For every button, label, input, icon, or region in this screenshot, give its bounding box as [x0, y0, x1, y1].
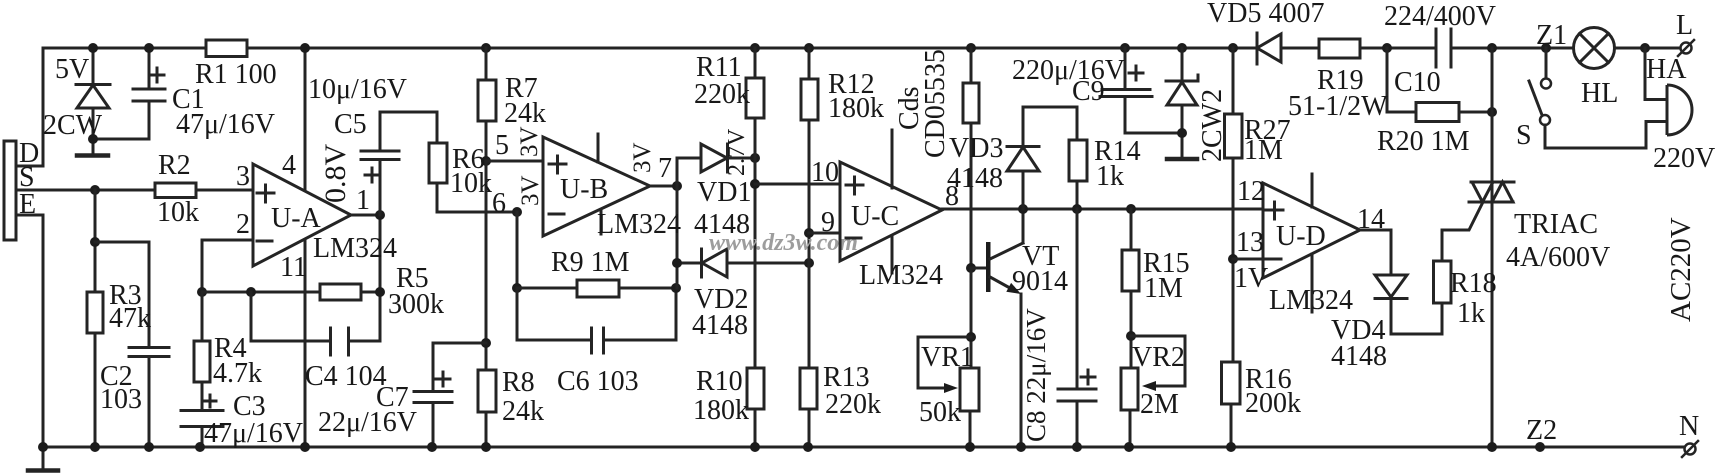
svg-text:13: 13	[1236, 227, 1264, 258]
wire pin E	[16, 215, 43, 447]
resistor R11	[746, 78, 764, 118]
svg-text:103: 103	[100, 384, 142, 415]
capacitor C2	[129, 348, 169, 357]
node bottom rail C3	[195, 442, 205, 452]
svg-text:CD05535: CD05535	[920, 49, 951, 158]
svg-text:AC220V: AC220V	[1665, 217, 1697, 322]
svg-text:LM324: LM324	[597, 209, 681, 240]
svg-text:C9: C9	[1072, 76, 1105, 107]
wire U-A output	[351, 214, 380, 217]
resistor R10	[747, 368, 764, 409]
svg-text:9014: 9014	[1012, 266, 1068, 297]
op-amp U-B	[543, 137, 650, 236]
node R20 right triac	[1487, 107, 1497, 117]
wire C7 branch	[433, 343, 486, 447]
svg-text:4.7k: 4.7k	[213, 358, 262, 389]
svg-text:1V: 1V	[1234, 263, 1268, 294]
node R15 top	[1126, 204, 1136, 214]
svg-text:6: 6	[492, 188, 506, 219]
svg-text:10μ/16V: 10μ/16V	[308, 74, 407, 105]
wire R27 divider	[1231, 48, 1233, 447]
wire zener anode to C1 bottom	[93, 138, 149, 141]
svg-text:R18: R18	[1450, 268, 1497, 299]
wire lamp to L	[1615, 47, 1681, 50]
svg-text:LM324: LM324	[1269, 285, 1353, 316]
wire R12 divider	[808, 48, 811, 447]
node output U-A right	[375, 287, 385, 297]
svg-text:VD1: VD1	[697, 177, 751, 208]
svg-text:300k: 300k	[388, 289, 444, 320]
node bottom rail C7	[427, 442, 437, 452]
capacitor C5	[361, 112, 437, 215]
svg-text:200k: 200k	[1245, 388, 1301, 419]
wire pin S	[16, 189, 155, 192]
wire pin4 U-A	[304, 48, 307, 190]
node VD1 cathode	[750, 153, 760, 163]
svg-text:1M: 1M	[1244, 135, 1283, 166]
svg-text:10: 10	[811, 157, 839, 188]
wire feedback row R5	[202, 291, 380, 294]
wire R7 leads	[485, 48, 488, 161]
svg-text:9: 9	[821, 207, 835, 238]
wire pin D	[16, 165, 43, 168]
wire U-C power stub bottom	[891, 236, 894, 273]
svg-text:2.7V: 2.7V	[724, 128, 750, 176]
svg-text:L: L	[1676, 10, 1693, 41]
svg-text:U-A: U-A	[271, 203, 322, 234]
node triac top	[1487, 43, 1497, 53]
svg-text:224/400V: 224/400V	[1384, 1, 1496, 32]
resistor R8	[478, 370, 496, 412]
svg-text:220k: 220k	[694, 79, 750, 110]
svg-text:220V: 220V	[1653, 143, 1715, 174]
svg-text:8: 8	[945, 181, 959, 212]
node top rail R11	[750, 43, 760, 53]
node bottom rail C2	[144, 442, 154, 452]
wire pin2 U-A	[202, 240, 253, 292]
node R3 top	[90, 237, 100, 247]
svg-text:C8 22μ/16V: C8 22μ/16V	[1021, 308, 1051, 442]
wire U-B power stub bottom	[600, 210, 603, 234]
wire R15 leads	[1130, 209, 1131, 447]
node bottom rail R10	[750, 442, 760, 452]
node top rail Cds	[966, 43, 976, 53]
wire triac main top	[1491, 48, 1494, 447]
node pin2 feedback	[197, 287, 207, 297]
node top rail R7	[481, 43, 491, 53]
node pin13 tap	[1228, 254, 1238, 264]
node VR1 wiper tap	[966, 332, 976, 342]
node VT collector VD3	[1018, 204, 1028, 214]
plus sign C1	[150, 68, 164, 82]
resistor R7	[478, 80, 496, 121]
wire pin13 U-D	[1233, 258, 1263, 261]
node VT base	[966, 263, 976, 273]
resistor R5	[320, 284, 361, 300]
node bottom rail R3	[90, 442, 100, 452]
node VD2 row right	[804, 258, 814, 268]
resistor R15	[1122, 250, 1139, 291]
node U-A output	[375, 210, 385, 220]
svg-text:4A/600V: 4A/600V	[1506, 242, 1610, 273]
svg-text:1: 1	[356, 185, 370, 216]
wire U-B output	[650, 185, 677, 188]
node bottom rail C8	[1072, 442, 1082, 452]
diode VD5	[1256, 33, 1259, 64]
wire U-C output row to pin12	[942, 208, 1263, 211]
svg-text:3V: 3V	[517, 175, 544, 206]
resistor R9	[577, 280, 619, 297]
wire R9 row	[517, 287, 676, 290]
svg-text:U-C: U-C	[851, 201, 899, 232]
node S-R3	[90, 185, 100, 195]
svg-text:LM324: LM324	[859, 260, 943, 291]
node pin9 tap	[804, 228, 814, 238]
potentiometer VR1	[960, 368, 979, 411]
svg-text:2CW: 2CW	[43, 110, 103, 141]
op-amp U-A	[253, 164, 351, 266]
wire pin5 U-B	[486, 160, 543, 163]
wire top supply rail left segment	[43, 48, 206, 166]
node top rail 2CW2	[1177, 43, 1187, 53]
wire R20 branch	[1387, 48, 1492, 112]
svg-text:4: 4	[282, 150, 296, 181]
diode VD4	[1375, 275, 1407, 297]
svg-text:2CW2: 2CW2	[1197, 89, 1228, 162]
lamp HL	[1574, 28, 1615, 69]
resistor R13	[800, 368, 817, 409]
svg-text:1M: 1M	[1144, 273, 1183, 304]
svg-text:U-B: U-B	[560, 174, 608, 205]
resistor R3	[87, 292, 103, 333]
wire output vertical	[676, 158, 679, 288]
wire Cds leads	[970, 48, 973, 268]
svg-text:VD3: VD3	[949, 133, 1003, 164]
svg-text:4148: 4148	[692, 310, 748, 341]
node top rail R27	[1228, 43, 1238, 53]
node top rail C9	[1120, 43, 1130, 53]
wire VR1 wiper loop	[918, 337, 971, 388]
svg-text:47μ/16V: 47μ/16V	[204, 418, 303, 449]
node C4 tap	[246, 287, 256, 297]
svg-text:HL: HL	[1581, 78, 1618, 109]
svg-text:LM324: LM324	[313, 233, 397, 264]
wire R6 leads	[437, 112, 517, 212]
svg-text:1k: 1k	[1457, 298, 1485, 329]
diode VD2	[677, 249, 809, 277]
capacitor C8	[1058, 389, 1096, 401]
diode VD1	[677, 144, 755, 172]
wire pin11 U-A	[304, 240, 307, 447]
wire pin10 U-C	[755, 183, 840, 186]
wire U-D output pin14	[1360, 229, 1391, 232]
node VR2 wiper tap	[1126, 331, 1136, 341]
node bottom rail R16	[1226, 442, 1236, 452]
resistor R27	[1225, 114, 1243, 158]
svg-text:S: S	[1516, 120, 1532, 151]
wire pin9 U-C	[809, 232, 840, 235]
node top rail zener	[88, 43, 98, 53]
plus sign C3	[204, 395, 216, 407]
wire bottom ground rail	[43, 446, 1684, 449]
svg-text:24k: 24k	[504, 98, 546, 129]
wire C6 branch	[517, 288, 676, 340]
node bottom rail R8	[481, 442, 491, 452]
capacitor C1	[133, 48, 165, 139]
svg-text:10k: 10k	[157, 197, 199, 228]
resistor R16	[1222, 362, 1241, 404]
plus sign C8	[1081, 370, 1095, 384]
capacitor C10	[1436, 29, 1451, 67]
capacitor C7	[414, 392, 452, 403]
svg-text:180k: 180k	[828, 93, 884, 124]
node pin10 tap	[750, 179, 760, 189]
wire R11 divider	[754, 48, 757, 447]
wire R18 bottom to VD4	[1391, 299, 1442, 334]
ground main symbol	[42, 447, 45, 469]
sensor package D S E	[4, 141, 16, 240]
svg-text:50k: 50k	[919, 397, 961, 428]
node C7 tap	[481, 338, 491, 348]
wire U-C power stub top	[891, 130, 894, 188]
svg-text:R8: R8	[502, 367, 535, 398]
wire C10 to Z1	[1451, 47, 1573, 50]
wire U-D power stub bottom	[1311, 254, 1314, 312]
wire VD5 to R19	[1281, 47, 1319, 50]
terminal N	[1685, 444, 1696, 455]
wire R3 branch	[94, 190, 97, 447]
resistor R18	[1434, 261, 1452, 303]
resistor R4	[194, 341, 210, 382]
svg-text:5: 5	[495, 130, 509, 161]
node Z1	[1541, 43, 1551, 53]
node pin6	[512, 207, 522, 217]
op-amp U-D	[1263, 183, 1360, 278]
svg-text:220μ/16V: 220μ/16V	[1012, 55, 1125, 86]
svg-text:12: 12	[1237, 176, 1265, 207]
resistor R12	[801, 79, 818, 120]
svg-text:7: 7	[658, 153, 672, 184]
plus sign C9	[1129, 66, 1143, 80]
svg-text:Z1: Z1	[1536, 20, 1567, 51]
svg-text:C5: C5	[334, 109, 367, 140]
node U-B output	[672, 181, 682, 191]
svg-text:4148: 4148	[1331, 341, 1387, 372]
svg-text:22μ/16V: 22μ/16V	[318, 407, 417, 438]
resistor R20	[1416, 103, 1459, 122]
svg-text:R1 100: R1 100	[195, 59, 277, 90]
node HA tap	[1640, 43, 1650, 53]
photoresistor Cds	[963, 83, 979, 123]
node C9 2CW2 junction	[1177, 128, 1187, 138]
wire C8 branch	[1076, 209, 1079, 447]
node C10 R20 left	[1382, 43, 1392, 53]
wire R2 to pin3	[196, 189, 253, 192]
svg-text:U-D: U-D	[1276, 221, 1326, 252]
node top rail pin4	[300, 43, 310, 53]
wire R14 leads	[1076, 107, 1079, 209]
node bottom rail pin11	[300, 442, 310, 452]
node top rail R12	[804, 43, 814, 53]
node C1 zener junction	[88, 134, 98, 144]
svg-text:47k: 47k	[109, 303, 151, 334]
svg-text:R20 1M: R20 1M	[1377, 126, 1470, 157]
potentiometer VR2	[1121, 368, 1138, 410]
svg-text:1k: 1k	[1096, 161, 1124, 192]
ground under zener	[92, 139, 95, 154]
wire C4 right	[349, 215, 380, 341]
wire bias divider down	[485, 161, 488, 447]
svg-text:C6 103: C6 103	[557, 366, 639, 397]
svg-text:C10: C10	[1394, 67, 1441, 98]
svg-text:E: E	[19, 189, 36, 220]
svg-text:2: 2	[236, 209, 250, 240]
wire VR1 branch	[970, 268, 971, 447]
svg-text:www.dz3w.com: www.dz3w.com	[709, 230, 858, 256]
svg-text:TRIAC: TRIAC	[1514, 209, 1598, 240]
node bottom rail VR2	[1124, 442, 1134, 452]
svg-text:2M: 2M	[1140, 389, 1179, 420]
resistor R6	[429, 143, 447, 183]
svg-text:Z2: Z2	[1526, 415, 1557, 446]
node bottom rail VR1	[965, 442, 975, 452]
svg-text:180k: 180k	[693, 395, 749, 426]
wire top supply rail to VD5	[247, 47, 1257, 50]
svg-text:47μ/16V: 47μ/16V	[176, 109, 275, 140]
switch S	[1545, 48, 1548, 78]
svg-text:VR2: VR2	[1132, 342, 1185, 373]
node R9 left	[512, 283, 522, 293]
ground under 2CW2	[1167, 157, 1197, 162]
wire C2 branch	[95, 242, 149, 447]
wire U-B power stub top	[597, 134, 600, 162]
resistor R2	[155, 183, 196, 198]
svg-text:11: 11	[280, 252, 307, 283]
capacitor C9	[1100, 48, 1182, 133]
wire VR2 wiper loop	[1131, 336, 1185, 386]
op-amp U-C	[840, 162, 942, 261]
wire pin6 feedback down	[516, 212, 519, 288]
wire U-D power stub top	[1311, 174, 1314, 207]
zener 2CW2	[1166, 48, 1198, 158]
node top rail C1	[144, 43, 154, 53]
transistor VT base wire	[971, 267, 986, 270]
node bottom rail VT emitter	[1016, 442, 1026, 452]
wire C4 left	[251, 292, 330, 341]
zener 2CW	[76, 48, 110, 139]
node R14 bottom C8	[1072, 204, 1082, 214]
svg-text:3V: 3V	[516, 126, 543, 157]
svg-text:VR1: VR1	[921, 342, 974, 373]
svg-text:R2: R2	[158, 150, 191, 181]
node VD2 row left	[672, 258, 682, 268]
svg-text:VD5 4007: VD5 4007	[1207, 0, 1324, 29]
node R9 right	[671, 283, 681, 293]
node pin5 bias	[481, 156, 491, 166]
resistor R1	[206, 40, 247, 57]
svg-text:5V: 5V	[55, 54, 89, 85]
svg-text:R10: R10	[696, 366, 743, 397]
svg-text:51-1/2W: 51-1/2W	[1288, 91, 1388, 122]
capacitor C3	[181, 411, 223, 427]
wire triac gate	[1442, 202, 1483, 261]
svg-text:3: 3	[236, 161, 250, 192]
triac T1 bars and triangles	[1469, 182, 1514, 202]
svg-text:3V: 3V	[629, 142, 656, 173]
node triac bottom rail	[1487, 442, 1497, 452]
resistor R14	[1069, 140, 1087, 181]
buzzer HA	[1645, 48, 1667, 100]
wire R19 to C10	[1360, 47, 1436, 50]
svg-text:N: N	[1679, 411, 1699, 442]
diode VD3	[1007, 107, 1077, 209]
plus sign C5	[365, 168, 379, 182]
resistor R19	[1319, 39, 1360, 58]
node bottom rail E	[38, 442, 48, 452]
node bottom rail R13	[803, 442, 813, 452]
terminal L	[1681, 43, 1692, 54]
svg-text:10k: 10k	[450, 168, 492, 199]
svg-text:0.8V: 0.8V	[319, 144, 352, 204]
wire R4 branch	[201, 292, 204, 447]
svg-text:220k: 220k	[825, 389, 881, 420]
capacitor C6	[592, 328, 604, 353]
transistor VT 9014	[986, 242, 991, 292]
svg-text:HA: HA	[1646, 54, 1687, 85]
svg-text:C4 104: C4 104	[305, 361, 387, 392]
node Z2	[1535, 442, 1545, 452]
capacitor C4	[331, 328, 349, 355]
svg-text:24k: 24k	[502, 396, 544, 427]
plus sign C7	[436, 372, 450, 386]
svg-text:R9 1M: R9 1M	[551, 247, 630, 278]
